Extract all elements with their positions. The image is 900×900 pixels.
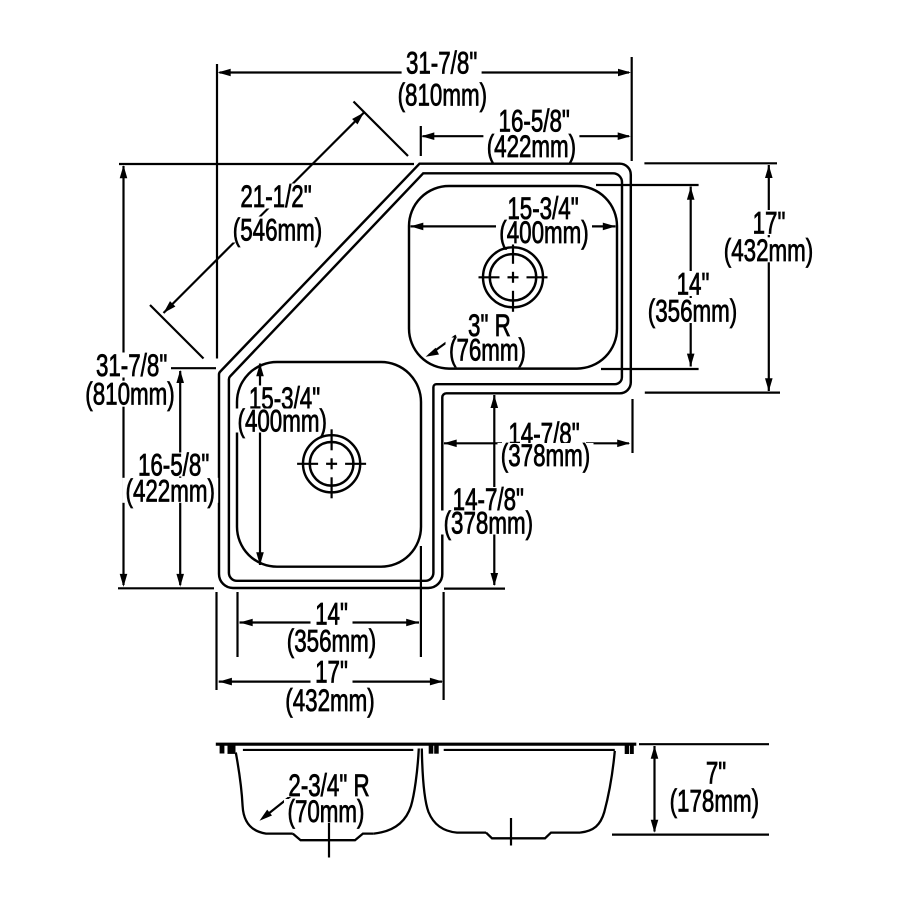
lower bowl drain inner ring [310, 442, 354, 486]
svg-text:(356mm): (356mm) [648, 293, 737, 329]
upper bowl drain outer ring [483, 247, 543, 307]
section view: right bowl left wall (divider) [422, 749, 486, 833]
label 378mm vertical [440, 511, 536, 535]
dimension 14in/356mm upper bowl: extension lines [596, 184, 699, 186]
label 14in right [672, 271, 714, 296]
dimension 14in/356mm bottom: extension lines [236, 592, 238, 657]
label 7in section [696, 761, 736, 785]
dimension 7in/178mm section: dimension line [653, 746, 655, 832]
label 178mm section [665, 788, 763, 813]
label 422mm left [122, 478, 218, 503]
svg-text:(378mm): (378mm) [444, 505, 533, 541]
svg-text:(400mm): (400mm) [237, 403, 326, 439]
label 810mm left [82, 381, 178, 407]
sink inner rim (deck) outline [229, 173, 622, 581]
dimension 16-5/8in/422mm top: extension line [420, 126, 422, 156]
section view: left bowl right wall (divider) [374, 749, 419, 834]
label 810mm top [394, 82, 490, 108]
label 14-7/8in horizontal [502, 422, 586, 445]
upper bowl drain centerlines [479, 276, 500, 278]
dimension 31-7/8in/810mm left: dimension line [122, 166, 124, 585]
dimension 31-7/8in/810mm top: extension lines [216, 64, 218, 359]
label 3in R [465, 313, 513, 337]
svg-text:(422mm): (422mm) [487, 128, 576, 164]
dimension 17in/432mm bottom: extension lines [215, 592, 217, 690]
leader arrow 2-3/4in R [263, 791, 297, 818]
dimension 21-1/2in/546mm diagonal: extension lines [354, 102, 409, 157]
svg-text:(810mm): (810mm) [398, 77, 487, 113]
section view: rim top line [216, 743, 637, 746]
label 31-7/8in top [402, 50, 482, 75]
mounting clip left [220, 745, 225, 753]
section view: left bowl drain centerline [328, 821, 330, 858]
dimension 16-5/8in/422mm left: dimension line [179, 371, 181, 585]
label 356mm right [645, 298, 741, 323]
svg-text:(178mm): (178mm) [670, 783, 759, 819]
mounting clip center [429, 745, 434, 753]
dimension 17in/432mm right: extension lines [644, 162, 777, 164]
label 400mm lower bowl [234, 409, 330, 433]
label 546mm [229, 217, 327, 243]
dimension 7in/178mm section: extension lines [639, 743, 769, 745]
dimension 14in/356mm bottom: dimension line [240, 621, 420, 623]
lower bowl drain outer ring [303, 435, 360, 492]
svg-text:31-7/8": 31-7/8" [406, 45, 477, 81]
label 16-5/8in left [133, 453, 215, 477]
lower bowl drain centerlines [297, 463, 318, 465]
label 400mm upper bowl [496, 220, 592, 245]
lower-left bowl (14 x 15-3/4) [237, 362, 421, 567]
dimension 15-3/4in/400mm upper bowl: dimension line [411, 225, 616, 227]
svg-text:(70mm): (70mm) [288, 793, 365, 829]
section view: right bowl drain recess [486, 833, 580, 839]
label 31-7/8in left [92, 353, 172, 378]
svg-text:(76mm): (76mm) [449, 332, 526, 368]
sink outer rim outline (plan view) [219, 164, 631, 588]
label 14-7/8in vertical [446, 487, 530, 511]
label 432mm right [721, 237, 817, 262]
label 432mm bottom [282, 688, 378, 713]
dimension 17in/432mm bottom: dimension line [219, 680, 442, 682]
dimension 16-5/8in/422mm left: extension line [171, 367, 216, 369]
label 15-3/4in upper bowl [503, 196, 583, 221]
svg-text:(422mm): (422mm) [125, 472, 214, 508]
label 17in bottom [311, 660, 353, 684]
label 422mm top [483, 133, 579, 158]
section view: rim deck line left [243, 749, 413, 751]
section view: right bowl drain centerline [510, 818, 512, 846]
svg-text:(546mm): (546mm) [233, 212, 322, 248]
upper bowl drain inner ring [490, 254, 536, 300]
dimension 31-7/8in/810mm top: dimension line [220, 71, 630, 73]
dimension 15-3/4in/400mm lower bowl: dimension line [259, 364, 261, 566]
label 2-3/4in R [279, 773, 379, 797]
label 15-3/4in lower bowl [245, 386, 325, 411]
dimension 14-7/8in/378mm horizontal: extension line [631, 399, 633, 453]
label 76mm [446, 338, 530, 362]
svg-text:(432mm): (432mm) [285, 682, 374, 718]
label 21-1/2in [235, 184, 317, 209]
label 14in bottom [311, 602, 353, 626]
mounting clip right [625, 745, 629, 754]
label 70mm [284, 799, 368, 823]
svg-text:(378mm): (378mm) [501, 437, 590, 473]
dimension 17in/432mm right: dimension line [768, 165, 770, 391]
section view: right bowl right wall [580, 751, 615, 833]
dimension 21-1/2in/546mm diagonal: dimension line [164, 113, 365, 314]
svg-text:(400mm): (400mm) [499, 214, 588, 250]
dimension 16-5/8in/422mm top: dimension line [423, 135, 630, 137]
svg-text:(432mm): (432mm) [724, 232, 813, 268]
section view: left bowl drain recess [293, 834, 374, 841]
upper-right bowl (15-3/4 x 14) [409, 186, 617, 369]
dimension 14in/356mm upper bowl: dimension line [690, 187, 692, 367]
svg-text:21-1/2": 21-1/2" [240, 178, 311, 214]
dimension 14-7/8in/378mm vertical: extension line [444, 587, 505, 589]
label 16-5/8in top [493, 109, 575, 133]
dimension 14-7/8in/378mm vertical: dimension line [493, 395, 495, 585]
svg-text:(810mm): (810mm) [85, 376, 174, 412]
leader arrow 3in R [429, 336, 456, 356]
dimension 14-7/8in/378mm horizontal: dimension line [444, 442, 629, 444]
section view: left bowl outer wall [236, 753, 293, 834]
section view: rim deck line right [444, 749, 615, 751]
label 378mm horizontal [498, 443, 594, 467]
label 356mm bottom [284, 628, 380, 653]
label 17in right [748, 210, 790, 235]
dimension 31-7/8in/810mm left: extension lines [119, 163, 414, 165]
